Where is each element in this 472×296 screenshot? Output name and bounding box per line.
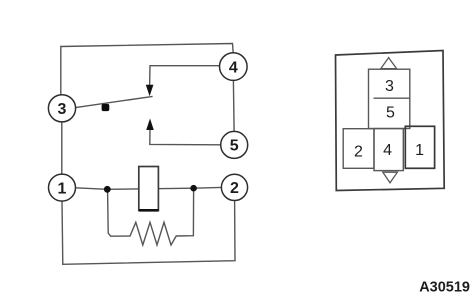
svg-text:2: 2 [230, 180, 239, 197]
svg-text:1: 1 [415, 142, 424, 159]
svg-text:3: 3 [385, 78, 394, 95]
svg-text:2: 2 [354, 144, 363, 161]
svg-text:3: 3 [58, 101, 67, 118]
svg-text:1: 1 [58, 180, 67, 197]
svg-text:4: 4 [383, 142, 392, 159]
svg-text:5: 5 [230, 138, 239, 155]
svg-text:4: 4 [229, 59, 238, 76]
svg-text:5: 5 [386, 104, 395, 121]
svg-text:A30519: A30519 [419, 279, 470, 295]
